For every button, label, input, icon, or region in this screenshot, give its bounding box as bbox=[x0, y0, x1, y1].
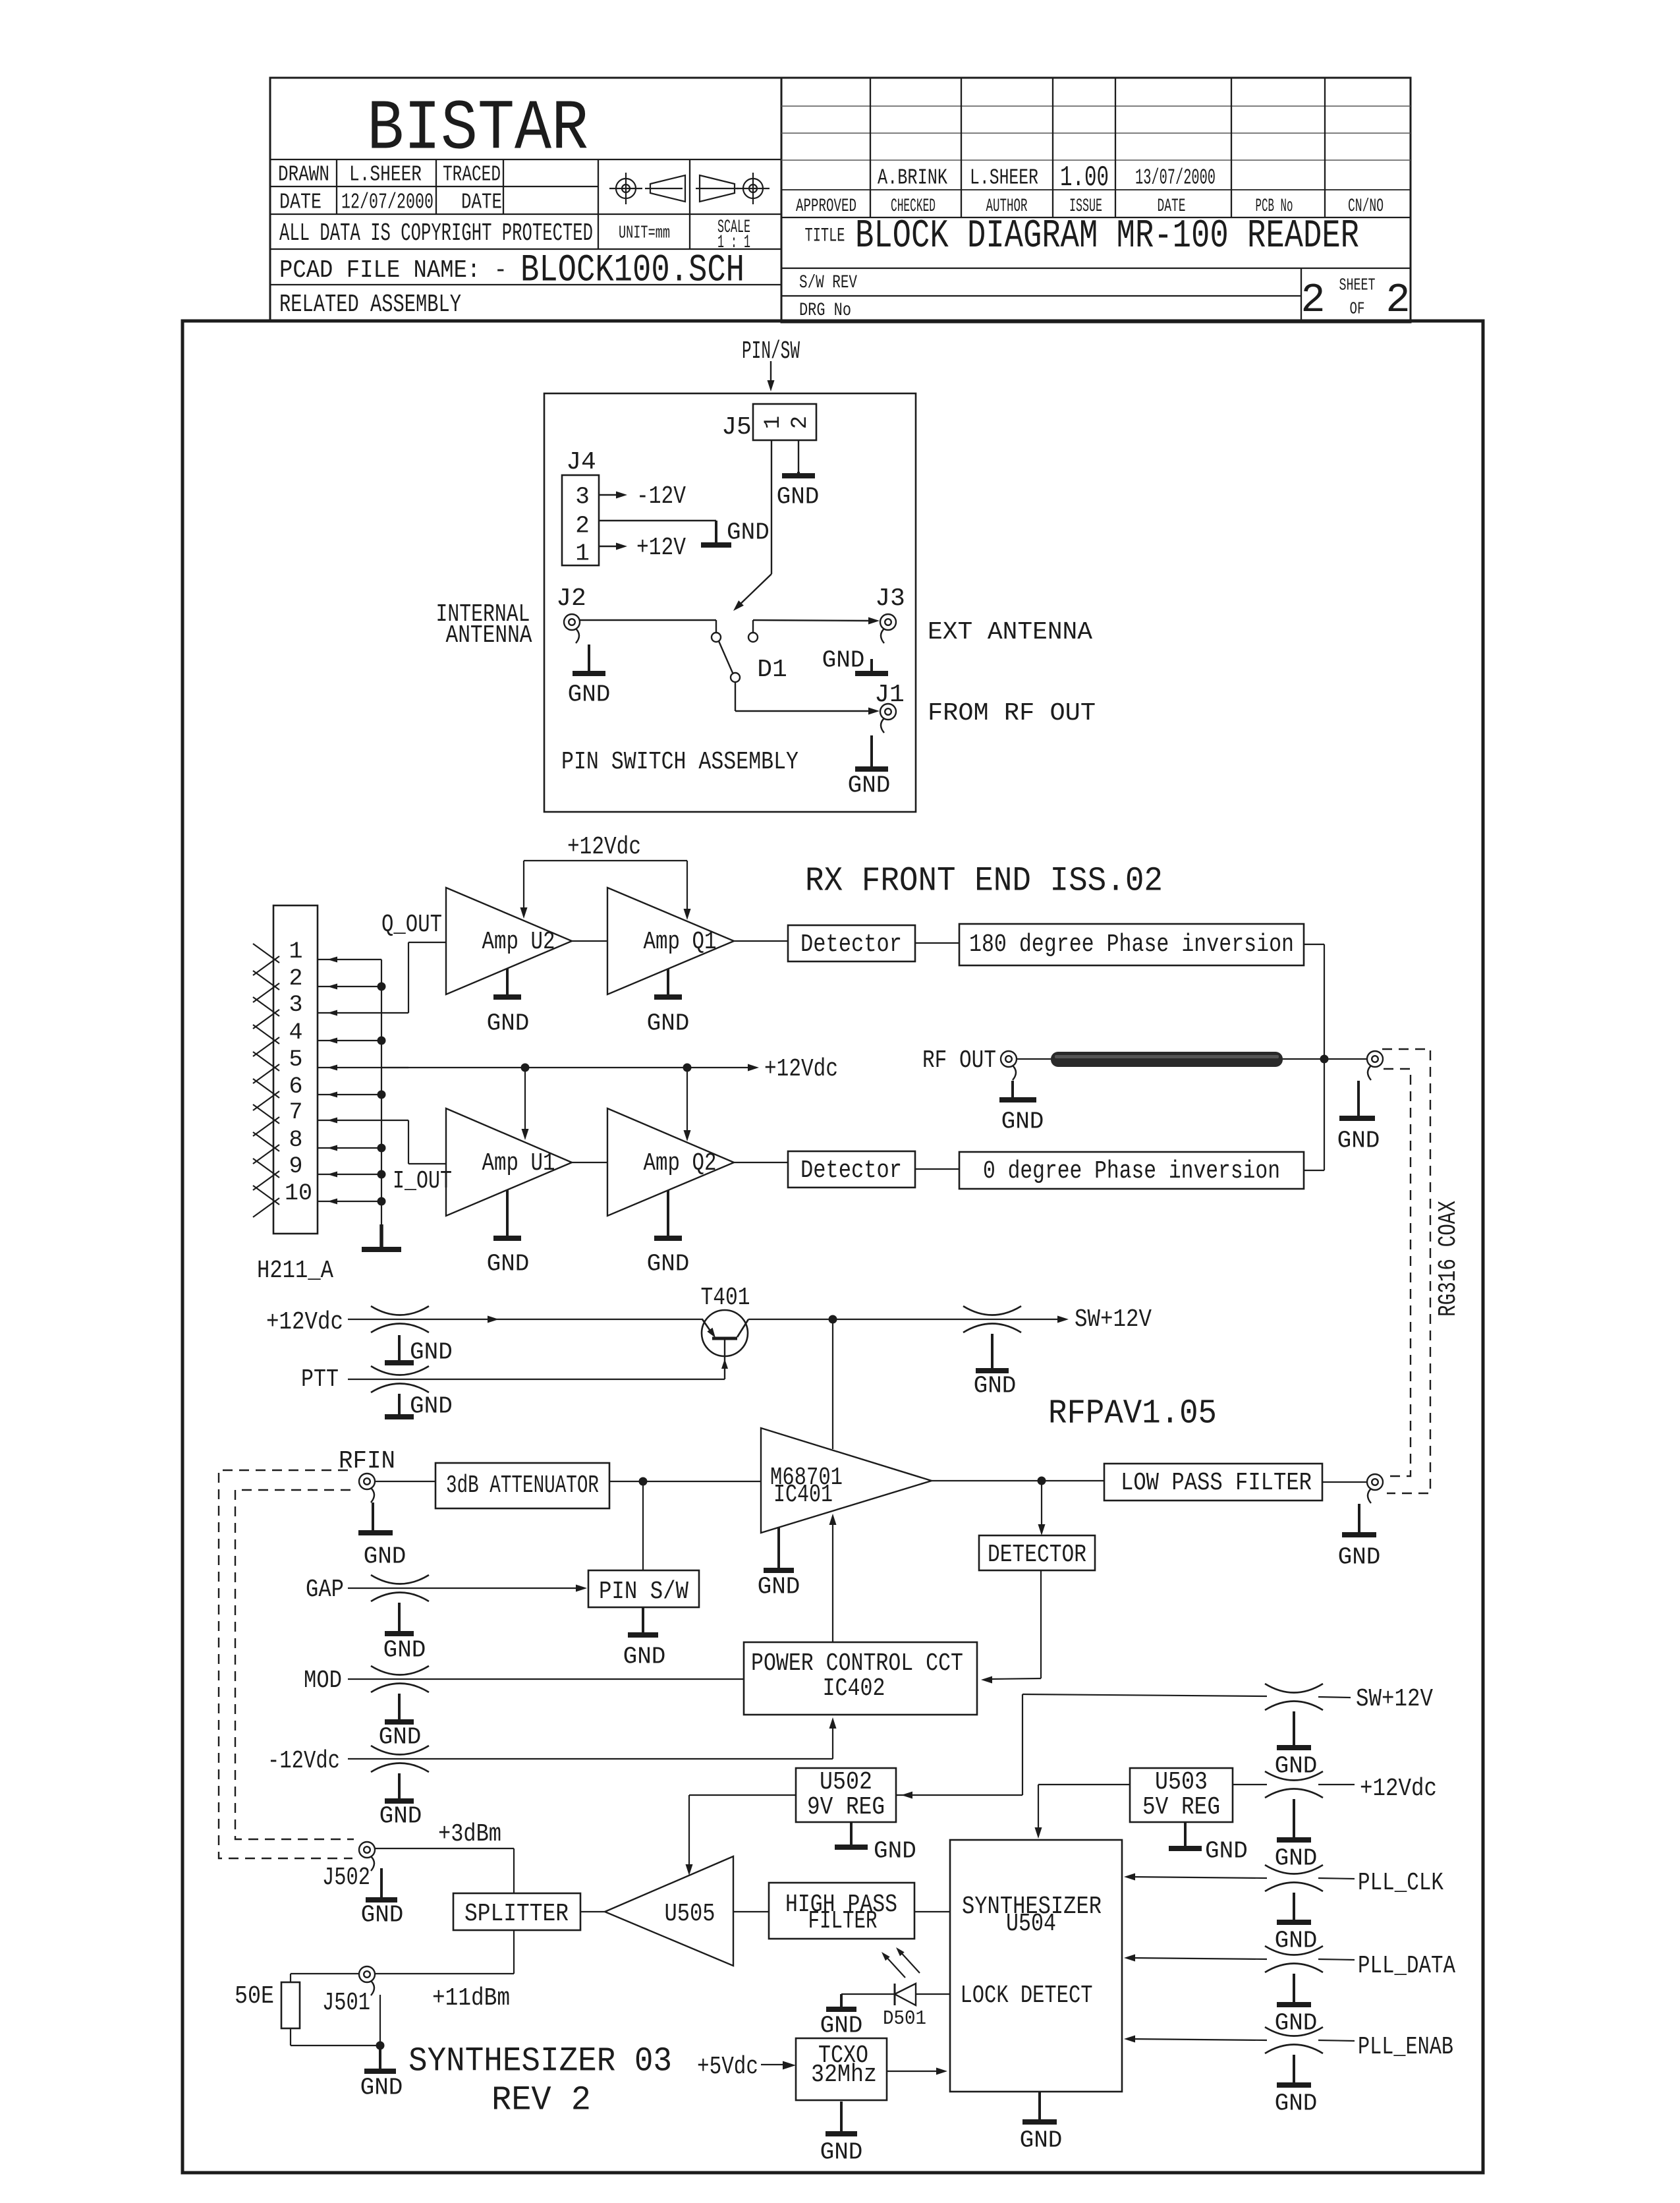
junction ground node bbox=[376, 2042, 385, 2050]
wire junction to detector bbox=[1041, 1481, 1042, 1530]
svg-text:FROM RF OUT: FROM RF OUT bbox=[928, 699, 1096, 728]
svg-text:Q_OUT: Q_OUT bbox=[381, 911, 442, 939]
wire switch to J1 bbox=[735, 682, 736, 711]
wire supply to U2 bbox=[523, 861, 524, 913]
labels row line bbox=[781, 217, 1411, 218]
wire I_OUT bbox=[408, 1120, 409, 1164]
svg-text:7: 7 bbox=[289, 1099, 302, 1126]
junction IC401 output bbox=[1038, 1477, 1046, 1485]
junction bbox=[378, 1144, 386, 1153]
ground -12Vdc filter bbox=[398, 1773, 401, 1801]
svg-text:10: 10 bbox=[285, 1180, 312, 1207]
svg-text:GND: GND bbox=[379, 1803, 422, 1830]
regulator U502 box bbox=[796, 1768, 896, 1822]
svg-text:D1: D1 bbox=[757, 656, 787, 684]
title block frame left bbox=[270, 78, 781, 321]
svg-text:PIN SWITCH ASSEMBLY: PIN SWITCH ASSEMBLY bbox=[561, 748, 798, 776]
wire bus vertical bbox=[381, 959, 382, 1249]
svg-text:J2: J2 bbox=[556, 585, 586, 613]
switch arm D1 bbox=[719, 641, 733, 673]
svg-text:GND: GND bbox=[647, 1010, 690, 1037]
feedthrough capacitor PLL_CLK bbox=[1265, 1865, 1323, 1874]
svg-text:EXT ANTENNA: EXT ANTENNA bbox=[928, 618, 1092, 646]
svg-text:GND: GND bbox=[727, 519, 770, 546]
amplifier Q2 bbox=[607, 1108, 734, 1216]
svg-text:2: 2 bbox=[575, 513, 590, 540]
block PIN S/W bbox=[588, 1570, 699, 1607]
oscillator TCXO box bbox=[796, 2038, 887, 2100]
svg-text:Detector: Detector bbox=[800, 1157, 902, 1185]
ground U502 bbox=[850, 1822, 853, 1847]
title row line bbox=[781, 268, 1411, 269]
ground GAP filter bbox=[398, 1603, 401, 1634]
coax shield dashed outer left bbox=[219, 1470, 352, 1858]
svg-text:3: 3 bbox=[289, 992, 302, 1018]
wire resistor bottom to ground node bbox=[290, 2028, 291, 2046]
svg-text:3dB ATTENUATOR: 3dB ATTENUATOR bbox=[446, 1472, 599, 1500]
svg-text:GND: GND bbox=[820, 2139, 863, 2166]
junction T401 output bbox=[829, 1315, 837, 1324]
svg-text:GND: GND bbox=[360, 2074, 403, 2102]
junction rf out node bbox=[1320, 1055, 1329, 1064]
svg-text:I_OUT: I_OUT bbox=[393, 1167, 452, 1195]
svg-text:SYNTHESIZER 03: SYNTHESIZER 03 bbox=[408, 2042, 672, 2081]
connector coax right bbox=[1367, 1051, 1383, 1067]
revision row line 3 bbox=[781, 159, 1411, 161]
svg-text:SW+12V: SW+12V bbox=[1356, 1685, 1433, 1713]
ground PLL_CLK bbox=[1293, 1893, 1295, 1922]
wire T401 junction down to IC401 bbox=[832, 1319, 833, 1449]
connector H211_A box bbox=[273, 905, 318, 1234]
junction bbox=[378, 1197, 386, 1206]
coax shield dashed inner bbox=[1384, 1069, 1411, 1476]
switch contact left bbox=[712, 633, 721, 642]
svg-text:9: 9 bbox=[289, 1153, 302, 1180]
wire U1 to Q2 bbox=[572, 1162, 607, 1163]
wire coax to connector bbox=[1017, 1058, 1051, 1060]
column line symbols bbox=[598, 159, 599, 249]
title column line 6 bbox=[1324, 78, 1326, 217]
svg-text:RF OUT: RF OUT bbox=[922, 1046, 996, 1075]
svg-text:Amp U1: Amp U1 bbox=[482, 1149, 555, 1178]
switch contact bottom bbox=[731, 673, 740, 682]
wire U505 to HPF bbox=[733, 1911, 769, 1912]
title column line 5 bbox=[1231, 78, 1232, 217]
junction rail Q2 bbox=[683, 1064, 692, 1072]
title block frame right bbox=[781, 78, 1411, 322]
s/w rev divider bbox=[781, 295, 1301, 297]
cell line under BISTAR bbox=[270, 159, 781, 160]
svg-text:MOD: MOD bbox=[304, 1667, 342, 1695]
junction bbox=[378, 1170, 386, 1179]
ground PIN S/W bbox=[642, 1607, 644, 1635]
svg-text:UNIT=mm: UNIT=mm bbox=[619, 224, 670, 244]
block HIGH PASS FILTER bbox=[769, 1883, 914, 1939]
svg-text:LOCK DETECT: LOCK DETECT bbox=[961, 1982, 1093, 2010]
svg-text:J1: J1 bbox=[874, 681, 905, 709]
regulator U503 box bbox=[1130, 1768, 1233, 1822]
switch contact right bbox=[748, 633, 758, 642]
wire detector to IC402 bbox=[1040, 1570, 1042, 1678]
svg-text:D501: D501 bbox=[883, 2007, 926, 2030]
projection symbol third-angle bbox=[700, 175, 735, 202]
svg-text:GND: GND bbox=[410, 1339, 453, 1366]
svg-text:TRACED: TRACED bbox=[443, 163, 501, 187]
svg-text:PLL_CLK: PLL_CLK bbox=[1358, 1869, 1443, 1897]
coax shield dashed inner left bbox=[235, 1490, 354, 1839]
ground RFIN bbox=[372, 1502, 374, 1533]
svg-text:FILTER: FILTER bbox=[808, 1907, 878, 1935]
wire resistor top to J501 bbox=[290, 1974, 291, 1982]
svg-text:REV 2: REV 2 bbox=[491, 2081, 591, 2120]
svg-text:GND: GND bbox=[623, 1644, 666, 1671]
svg-text:GND: GND bbox=[1275, 1928, 1318, 1955]
svg-text:8: 8 bbox=[289, 1127, 302, 1153]
svg-text:GND: GND bbox=[1337, 1128, 1380, 1155]
title column line 2 bbox=[961, 78, 962, 217]
svg-text:GND: GND bbox=[361, 1902, 404, 1929]
wire LPF to connector bbox=[1322, 1481, 1368, 1483]
svg-text:Amp Q2: Amp Q2 bbox=[644, 1149, 717, 1178]
led D501 arrows bbox=[884, 1955, 905, 1978]
ground J2 bbox=[588, 644, 590, 673]
amplifier U1 bbox=[446, 1108, 572, 1216]
svg-text:J501: J501 bbox=[322, 1989, 370, 2017]
svg-text:J502: J502 bbox=[322, 1864, 370, 1892]
svg-text:TITLE: TITLE bbox=[805, 225, 845, 248]
coax cable bar bbox=[1051, 1052, 1283, 1067]
svg-text:GND: GND bbox=[1338, 1544, 1381, 1571]
svg-text:GND: GND bbox=[758, 1574, 800, 1601]
wire D501 cathode to ground bbox=[841, 1993, 895, 1995]
svg-text:IC402: IC402 bbox=[823, 1674, 885, 1703]
wire supply to Q2 bbox=[686, 1068, 688, 1136]
svg-text:GND: GND bbox=[1275, 1753, 1318, 1780]
revision row line 2 bbox=[781, 132, 1411, 134]
svg-text:T401: T401 bbox=[701, 1284, 750, 1312]
svg-text:APPROVED: APPROVED bbox=[796, 196, 856, 217]
block SYNTHESIZER U504 bbox=[950, 1840, 1122, 2092]
connector J3 bbox=[880, 614, 896, 630]
junction attenuator output bbox=[639, 1477, 648, 1486]
wire Q1 to detector bbox=[734, 940, 788, 942]
connector RF OUT bbox=[1001, 1051, 1017, 1067]
svg-text:Amp Q1: Amp Q1 bbox=[644, 928, 717, 956]
svg-text:H211_A: H211_A bbox=[257, 1257, 333, 1285]
wire RFIN to attenuator bbox=[374, 1481, 435, 1482]
svg-text:GND: GND bbox=[820, 2013, 863, 2040]
cell line under date row bbox=[270, 214, 781, 215]
ground J4 pin2 bbox=[715, 521, 717, 545]
revision row line 1 bbox=[781, 105, 1411, 107]
svg-text:2: 2 bbox=[289, 965, 302, 992]
ground Q1 bbox=[667, 969, 669, 997]
svg-text:POWER CONTROL CCT: POWER CONTROL CCT bbox=[751, 1649, 963, 1678]
svg-text:GND: GND bbox=[383, 1637, 426, 1664]
svg-text:1.00: 1.00 bbox=[1060, 161, 1109, 194]
ground SW+12V filter bbox=[991, 1334, 994, 1371]
ground D501 bbox=[840, 1994, 843, 2009]
svg-text:J5: J5 bbox=[721, 413, 752, 442]
svg-text:S/W REV: S/W REV bbox=[799, 273, 857, 293]
wire J502 to splitter bbox=[374, 1848, 514, 1849]
svg-text:GND: GND bbox=[410, 1393, 453, 1420]
svg-text:RFPAV1.05: RFPAV1.05 bbox=[1048, 1394, 1217, 1433]
connector J5 box bbox=[753, 404, 816, 440]
wire +12Vdc to U503 bbox=[1233, 1784, 1267, 1785]
svg-text:+5Vdc: +5Vdc bbox=[697, 2053, 758, 2081]
junction bbox=[378, 1037, 386, 1045]
svg-text:U503: U503 bbox=[1155, 1768, 1208, 1796]
wire PLL_CLK bbox=[1128, 1877, 1267, 1878]
svg-text:6: 6 bbox=[289, 1073, 302, 1100]
ground PTT filter bbox=[398, 1394, 401, 1417]
svg-text:SW+12V: SW+12V bbox=[1075, 1305, 1152, 1334]
svg-text:DETECTOR: DETECTOR bbox=[988, 1541, 1086, 1569]
svg-text:U502: U502 bbox=[820, 1768, 872, 1796]
ground SW+12V right bbox=[1293, 1711, 1295, 1748]
block Detector upper bbox=[788, 925, 915, 961]
feedthrough capacitor PLL_ENAB bbox=[1265, 2027, 1323, 2036]
svg-text:GND: GND bbox=[487, 1251, 530, 1278]
ground coax right bbox=[1357, 1081, 1360, 1118]
wire PTT to T401 base bbox=[348, 1379, 725, 1380]
wire +5Vdc to TCXO bbox=[761, 2064, 787, 2065]
feedthrough capacitor SW+12V bbox=[963, 1306, 1021, 1315]
svg-text:12/07/2000: 12/07/2000 bbox=[341, 190, 434, 215]
svg-text:5V REG: 5V REG bbox=[1142, 1793, 1220, 1821]
block Detector lower bbox=[788, 1151, 915, 1187]
svg-text:GND: GND bbox=[874, 1838, 916, 1865]
svg-text:+12Vdc: +12Vdc bbox=[266, 1308, 343, 1336]
feedthrough capacitor SW+12V right bbox=[1265, 1684, 1323, 1693]
ground J501 bbox=[379, 2046, 381, 2071]
block SPLITTER bbox=[453, 1893, 580, 1930]
svg-text:RX FRONT END ISS.02: RX FRONT END ISS.02 bbox=[805, 862, 1163, 901]
wire J5 pin1 to switch bbox=[771, 440, 772, 574]
svg-text:BISTAR: BISTAR bbox=[367, 90, 588, 170]
svg-text:PTT: PTT bbox=[301, 1365, 339, 1394]
wire TCXO to synthesizer bbox=[887, 2071, 943, 2072]
svg-text:L.SHEER: L.SHEER bbox=[349, 163, 422, 187]
junction rail U1 bbox=[521, 1064, 530, 1072]
column line traced bbox=[503, 159, 504, 214]
block LOW PASS FILTER bbox=[1104, 1464, 1322, 1501]
svg-text:BLOCK DIAGRAM MR-100 READER: BLOCK DIAGRAM MR-100 READER bbox=[855, 214, 1359, 259]
ground U503 bbox=[1184, 1822, 1187, 1848]
svg-text:GND: GND bbox=[379, 1724, 422, 1751]
block DETECTOR bbox=[979, 1535, 1095, 1570]
wire HPF to synthesizer bbox=[914, 1911, 950, 1912]
projection symbol first-angle bbox=[616, 179, 636, 198]
wire IC402 to IC401 control bbox=[832, 1518, 833, 1642]
transistor T401 bbox=[702, 1310, 748, 1356]
svg-text:+12Vdc: +12Vdc bbox=[1360, 1775, 1437, 1803]
connector J1 bbox=[880, 704, 896, 720]
ground PLL_ENAB bbox=[1293, 2055, 1295, 2085]
wire PIN/SW arrow bbox=[770, 361, 771, 386]
svg-text:2: 2 bbox=[1301, 277, 1325, 324]
connector J501 bbox=[359, 1966, 375, 1982]
svg-text:LOW PASS FILTER: LOW PASS FILTER bbox=[1121, 1469, 1312, 1497]
svg-text:DATE: DATE bbox=[461, 190, 502, 215]
wire detector to 0 block bbox=[915, 1168, 959, 1170]
svg-text:GND: GND bbox=[1001, 1108, 1044, 1135]
feedthrough capacitor MOD bbox=[371, 1666, 429, 1675]
wire GAP to pin s/w bbox=[348, 1588, 576, 1589]
wire junction to pin s/w bbox=[642, 1481, 644, 1570]
wire Q2 to detector bbox=[734, 1162, 788, 1163]
svg-text:IC401: IC401 bbox=[773, 1481, 833, 1509]
column line drawn bbox=[336, 159, 337, 214]
amplifier U505 bbox=[605, 1856, 733, 1966]
svg-text:U505: U505 bbox=[665, 1900, 715, 1928]
svg-text:GND: GND bbox=[777, 484, 820, 511]
feedthrough capacitor PLL_DATA bbox=[1265, 1946, 1323, 1955]
wire MOD to IC402 bbox=[348, 1678, 744, 1680]
ground J5 bbox=[797, 472, 800, 476]
block POWER CONTROL CCT IC402 bbox=[744, 1642, 977, 1715]
wire T401 to SW+12V bbox=[748, 1319, 1063, 1320]
svg-text:GND: GND bbox=[974, 1373, 1017, 1400]
wire SW+12V to U502 bbox=[896, 1794, 1022, 1796]
svg-text:SPLITTER: SPLITTER bbox=[464, 1900, 569, 1928]
svg-text:A.BRINK: A.BRINK bbox=[878, 166, 947, 190]
svg-text:GND: GND bbox=[1205, 1838, 1248, 1865]
ground PLL_DATA bbox=[1293, 1974, 1295, 2005]
svg-text:-12Vdc: -12Vdc bbox=[267, 1747, 340, 1775]
wire J5 pin2 to ground bbox=[798, 440, 799, 472]
svg-text:-12V: -12V bbox=[636, 482, 686, 511]
svg-text:PLL_ENAB: PLL_ENAB bbox=[1358, 2033, 1453, 2061]
wire 180 block to rf out node bbox=[1304, 944, 1324, 945]
ground coax bottom bbox=[1358, 1504, 1360, 1535]
connector J502 bbox=[359, 1842, 375, 1858]
ground U2 bbox=[506, 969, 509, 997]
ground +12Vdc filter bbox=[398, 1335, 401, 1363]
svg-text:L.SHEER: L.SHEER bbox=[970, 166, 1038, 190]
wire switch to J3 bbox=[752, 620, 754, 633]
ground +12Vdc right bbox=[1293, 1799, 1295, 1840]
wire D501 anode to synthesizer bbox=[916, 1993, 950, 1995]
svg-text:2: 2 bbox=[1386, 277, 1410, 324]
pin switch assembly box bbox=[544, 393, 916, 812]
wire splitter to J501 bbox=[513, 1930, 515, 1974]
wire J501 shield to ground node bbox=[379, 1995, 381, 2046]
svg-text:U504: U504 bbox=[1006, 1910, 1056, 1938]
svg-text:+12Vdc: +12Vdc bbox=[764, 1055, 838, 1083]
ground U504 bbox=[1038, 2092, 1041, 2122]
junction bbox=[378, 1091, 386, 1099]
wire +12Vdc rail top bbox=[524, 860, 687, 861]
amplifier Q1 bbox=[607, 888, 734, 994]
svg-text:GND: GND bbox=[1275, 2090, 1318, 2117]
feedthrough capacitor -12Vdc bbox=[371, 1746, 429, 1755]
wire IC401 output bbox=[932, 1480, 1104, 1481]
title column line 1 bbox=[870, 78, 871, 217]
feedthrough capacitor +12Vdc right bbox=[1265, 1771, 1323, 1781]
svg-text:RG316 COAX: RG316 COAX bbox=[1434, 1201, 1463, 1317]
column line symbol mid bbox=[689, 159, 690, 249]
svg-text:OF: OF bbox=[1350, 299, 1365, 318]
title column line 4 bbox=[1115, 78, 1116, 217]
feedthrough capacitor +12Vdc bbox=[371, 1306, 429, 1315]
coax shield dashed outer bbox=[1382, 1049, 1430, 1493]
amplifier IC401 bbox=[761, 1428, 932, 1533]
ground RF OUT bbox=[1011, 1081, 1014, 1100]
svg-text:32Mhz: 32Mhz bbox=[811, 2061, 877, 2089]
ground IC401 bbox=[777, 1527, 780, 1570]
wire PLL_ENAB bbox=[1128, 2039, 1267, 2040]
wire U2 to Q1 bbox=[572, 940, 607, 942]
wire attenuator to IC401 bbox=[609, 1481, 761, 1482]
svg-text:DRG No: DRG No bbox=[799, 300, 851, 321]
svg-text:0 degree Phase inversion: 0 degree Phase inversion bbox=[983, 1157, 1280, 1186]
svg-text:DRAWN: DRAWN bbox=[278, 163, 329, 187]
wire +12Vdc rail mid bbox=[381, 1067, 754, 1068]
wire J2 to switch bbox=[580, 619, 716, 621]
connector J2 bbox=[564, 614, 580, 630]
svg-text:1: 1 bbox=[761, 416, 786, 429]
svg-text:Amp U2: Amp U2 bbox=[482, 928, 555, 956]
wire U502 output to U505 bbox=[689, 1794, 796, 1796]
wire J4 pin1 to +12V bbox=[599, 546, 617, 547]
svg-text:1: 1 bbox=[575, 540, 590, 567]
ground MOD filter bbox=[398, 1694, 401, 1722]
svg-text:PCAD FILE NAME: -: PCAD FILE NAME: - bbox=[279, 256, 507, 285]
svg-text:DATE: DATE bbox=[279, 190, 322, 215]
title column line 3 bbox=[1052, 78, 1053, 217]
svg-text:5: 5 bbox=[289, 1046, 302, 1073]
wire PLL_DATA bbox=[1128, 1958, 1267, 1959]
svg-text:GND: GND bbox=[848, 772, 891, 799]
wire Q_OUT bbox=[408, 942, 409, 1013]
svg-text:GND: GND bbox=[822, 647, 865, 674]
ground J502 bbox=[380, 1868, 383, 1900]
svg-text:2: 2 bbox=[788, 416, 813, 429]
svg-text:BLOCK100.SCH: BLOCK100.SCH bbox=[520, 250, 744, 293]
svg-text:+12V: +12V bbox=[636, 534, 686, 562]
svg-text:GND: GND bbox=[1275, 1845, 1318, 1872]
wire J4 pin3 to -12V bbox=[599, 494, 617, 496]
svg-text:PIN S/W: PIN S/W bbox=[599, 1578, 688, 1606]
ground Q2 bbox=[667, 1190, 669, 1238]
feedthrough capacitor GAP bbox=[371, 1575, 429, 1584]
svg-text:GAP: GAP bbox=[306, 1576, 344, 1604]
wire U503 to synthesizer bbox=[1038, 1784, 1130, 1785]
drawing border bbox=[182, 321, 1483, 2173]
svg-text:J3: J3 bbox=[875, 585, 905, 613]
svg-text:SHEET: SHEET bbox=[1339, 275, 1376, 295]
svg-text:RFIN: RFIN bbox=[339, 1447, 395, 1475]
svg-text:GND: GND bbox=[1020, 2127, 1063, 2154]
svg-text:GND: GND bbox=[487, 1010, 530, 1037]
svg-text:GND: GND bbox=[568, 681, 611, 708]
wire supply to U1 bbox=[524, 1068, 526, 1135]
junction bbox=[378, 983, 386, 991]
svg-text:4: 4 bbox=[289, 1019, 302, 1046]
svg-text:ALL DATA IS COPYRIGHT PROTECTE: ALL DATA IS COPYRIGHT PROTECTED bbox=[279, 219, 593, 248]
connector coax bottom bbox=[1367, 1474, 1383, 1490]
svg-text:+11dBm: +11dBm bbox=[432, 1984, 510, 2013]
connector J4 box bbox=[562, 475, 599, 565]
cell line under pcad row bbox=[270, 284, 781, 285]
wire detector to 180 block bbox=[915, 942, 959, 944]
connector RFIN bbox=[359, 1473, 375, 1489]
wire J4 pin2 to ground bbox=[599, 520, 716, 521]
block 0 degree phase inversion bbox=[959, 1152, 1304, 1189]
svg-text:RELATED ASSEMBLY: RELATED ASSEMBLY bbox=[279, 291, 461, 319]
